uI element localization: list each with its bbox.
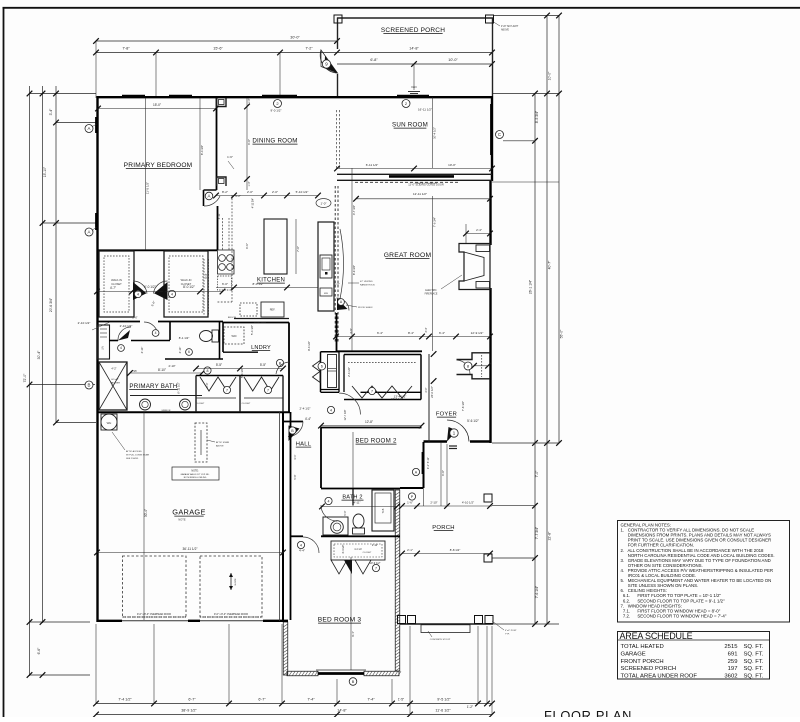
- linen closet 2: [321, 351, 340, 353]
- svg-text:8'-9 3/4": 8'-9 3/4": [352, 265, 356, 275]
- svg-text:22'-8": 22'-8": [548, 531, 552, 540]
- svg-text:4: 4: [155, 331, 157, 335]
- svg-text:B: B: [88, 383, 91, 388]
- svg-text:4: 4: [120, 346, 122, 350]
- left dims: [29, 86, 31, 676]
- svg-text:WALK-IN: WALK-IN: [111, 278, 122, 282]
- svg-text:C: C: [498, 132, 501, 137]
- laundry: [222, 322, 224, 352]
- bed3 hatched walls: [395, 490, 400, 671]
- svg-text:6'-0 1/2": 6'-0 1/2": [144, 285, 156, 289]
- svg-text:7'-4 1/2": 7'-4 1/2": [118, 698, 132, 702]
- hall closets: [196, 375, 283, 377]
- svg-text:16'-11 1/2": 16'-11 1/2": [418, 108, 432, 112]
- svg-text:9'-4": 9'-4": [204, 273, 208, 278]
- svg-text:8'-8 1/2": 8'-8 1/2": [450, 548, 461, 552]
- svg-text:CLOSET: CLOSET: [363, 552, 372, 554]
- svg-text:5'-10 1/2": 5'-10 1/2": [296, 190, 309, 194]
- svg-text:2'-10 1/2": 2'-10 1/2": [120, 324, 133, 328]
- svg-text:5'-5": 5'-5": [216, 363, 222, 367]
- svg-text:42" VENTED: 42" VENTED: [360, 281, 373, 283]
- svg-text:30'-0": 30'-0": [290, 36, 300, 40]
- svg-text:4: 4: [137, 292, 139, 296]
- svg-text:24'-0 1/2": 24'-0 1/2": [430, 386, 434, 398]
- svg-text:ABOVE: ABOVE: [216, 445, 224, 448]
- svg-text:7'-8 1/2": 7'-8 1/2": [461, 401, 465, 411]
- svg-text:4'-9": 4'-9": [349, 328, 353, 334]
- svg-text:SCREENED PORCH: SCREENED PORCH: [381, 27, 445, 34]
- great room south wall: [336, 350, 422, 352]
- svg-text:6'-8": 6'-8": [370, 58, 378, 62]
- svg-text:3602: 3602: [724, 673, 737, 679]
- svg-text:8'-1 1/2": 8'-1 1/2": [179, 336, 190, 340]
- svg-text:7: 7: [375, 566, 377, 570]
- svg-text:BOTH SIDES & CEILING: BOTH SIDES & CEILING: [184, 477, 207, 479]
- bath 2: [321, 488, 400, 490]
- svg-text:2'-10 1/2": 2'-10 1/2": [78, 321, 91, 325]
- svg-text:7'-6 3/4": 7'-6 3/4": [433, 217, 437, 227]
- svg-text:SCREENED PORCH: SCREENED PORCH: [621, 666, 677, 672]
- svg-text:4'-10": 4'-10": [178, 347, 182, 354]
- svg-text:7: 7: [371, 389, 373, 393]
- svg-text:2'-4 1/2": 2'-4 1/2": [300, 407, 311, 411]
- svg-text:38'-9 1/2": 38'-9 1/2": [181, 709, 197, 713]
- svg-text:10'-0": 10'-0": [448, 58, 458, 62]
- svg-text:20'-6 3/4": 20'-6 3/4": [49, 297, 53, 312]
- area schedule: [618, 632, 770, 680]
- svg-text:DINING ROOM: DINING ROOM: [252, 138, 297, 145]
- garage south wall: [97, 620, 122, 622]
- svg-text:2'-4 1/2": 2'-4 1/2": [347, 367, 351, 377]
- svg-text:4'-11": 4'-11": [217, 213, 221, 219]
- svg-text:4'-10 1/2": 4'-10 1/2": [462, 501, 474, 505]
- svg-text:7.2. SECOND FLOOR TO WIND: 7.2. SECOND FLOOR TO WINDOW HEAD = 7'-4": [621, 613, 727, 618]
- svg-text:1'-0": 1'-0": [248, 181, 251, 186]
- svg-text:11'-6 1/2": 11'-6 1/2": [435, 709, 451, 713]
- svg-text:SLOPE: SLOPE: [235, 578, 237, 586]
- svg-text:WALK-IN: WALK-IN: [181, 278, 192, 282]
- svg-text:4'-4 1/2": 4'-4 1/2": [342, 544, 345, 553]
- svg-text:6: 6: [188, 350, 190, 354]
- svg-text:SQ. FT.: SQ. FT.: [744, 659, 764, 665]
- svg-text:SQ. FT.: SQ. FT.: [744, 666, 764, 672]
- border frame: [3, 7, 5, 717]
- svg-text:15'-6": 15'-6": [213, 47, 223, 51]
- svg-text:4'-10": 4'-10": [140, 347, 144, 354]
- svg-text:12'-9 1/2": 12'-9 1/2": [471, 331, 484, 335]
- svg-text:1'-5": 1'-5": [398, 698, 404, 702]
- svg-text:BED ROOM 2: BED ROOM 2: [355, 438, 397, 445]
- svg-text:4"x4" POST: 4"x4" POST: [505, 630, 517, 632]
- svg-text:4'-4": 4'-4": [299, 549, 305, 553]
- svg-text:197: 197: [728, 666, 738, 672]
- svg-text:4: 4: [328, 499, 330, 503]
- svg-text:5'-9": 5'-9": [293, 474, 297, 479]
- svg-text:9'-0": 9'-0": [247, 139, 251, 145]
- svg-text:7'-0": 7'-0": [535, 470, 539, 478]
- svg-text:7'-8": 7'-8": [122, 47, 130, 51]
- svg-text:SEE 2/ A201: SEE 2/ A201: [126, 457, 139, 460]
- svg-text:GREAT ROOM: GREAT ROOM: [384, 252, 432, 259]
- exterior walls: [96, 96, 98, 622]
- svg-text:4'-2": 4'-2": [111, 367, 116, 371]
- svg-text:4: 4: [300, 543, 302, 547]
- svg-text:3'-4": 3'-4": [425, 327, 428, 332]
- main hall wall: [97, 411, 290, 413]
- svg-text:TOTAL HEATED: TOTAL HEATED: [621, 644, 664, 650]
- svg-text:7'-0": 7'-0": [296, 246, 300, 252]
- svg-text:10'-9 1/2": 10'-9 1/2": [370, 561, 381, 565]
- svg-text:8'-2": 8'-2": [222, 190, 228, 194]
- svg-text:6'-0": 6'-0": [222, 282, 228, 286]
- svg-text:PRIMARY BEDROOM: PRIMARY BEDROOM: [124, 162, 193, 169]
- svg-text:14'-8": 14'-8": [337, 709, 347, 713]
- svg-text:A: A: [88, 230, 91, 235]
- svg-text:FRONT PORCH: FRONT PORCH: [621, 659, 664, 665]
- svg-text:SQ. FT.: SQ. FT.: [744, 652, 764, 658]
- svg-text:12'-11 1/2": 12'-11 1/2": [413, 192, 427, 196]
- svg-text:9'-9": 9'-9": [245, 243, 249, 249]
- svg-text:8'-0 1/2": 8'-0 1/2": [253, 282, 264, 286]
- bottom dims: [96, 703, 492, 705]
- svg-text:2'-0": 2'-0": [272, 190, 278, 194]
- svg-text:CONCRETE STOOP: CONCRETE STOOP: [430, 639, 451, 641]
- svg-text:12'-8": 12'-8": [365, 420, 373, 424]
- svg-text:FLOOR PLAN: FLOOR PLAN: [544, 708, 632, 717]
- svg-text:B: B: [352, 680, 355, 684]
- svg-text:8'-4": 8'-4": [408, 331, 414, 335]
- svg-text:NOTE:: NOTE:: [191, 470, 199, 473]
- svg-text:HALL: HALL: [296, 442, 312, 448]
- svg-text:9'-0" x 8'-0" OVERHEAD DOOR: 9'-0" x 8'-0" OVERHEAD DOOR: [137, 613, 171, 616]
- foyer: [428, 354, 430, 442]
- svg-text:2515: 2515: [724, 644, 738, 650]
- svg-text:6'-4": 6'-4": [439, 331, 445, 335]
- svg-text:4'-7": 4'-7": [110, 286, 116, 290]
- svg-text:AREA SCHEDULE: AREA SCHEDULE: [620, 631, 693, 641]
- svg-text:W/D: W/D: [231, 334, 236, 338]
- svg-text:TOTAL AREA UNDER ROOF: TOTAL AREA UNDER ROOF: [621, 673, 698, 679]
- svg-text:12'-7 1/8": 12'-7 1/8": [343, 409, 347, 420]
- svg-text:CLOSET: CLOSET: [242, 403, 251, 405]
- svg-text:5'-5": 5'-5": [260, 363, 266, 367]
- svg-text:2'-0": 2'-0": [425, 387, 428, 392]
- svg-text:6'-7": 6'-7": [258, 698, 266, 702]
- svg-text:7'-4": 7'-4": [307, 698, 315, 702]
- svg-text:4: 4: [171, 292, 173, 296]
- svg-text:FAN: FAN: [411, 85, 416, 89]
- svg-text:2'-1": 2'-1": [407, 548, 413, 552]
- svg-text:1'-0": 1'-0": [334, 282, 340, 286]
- svg-text:8'-0 1/2": 8'-0 1/2": [183, 285, 195, 289]
- svg-text:4'-4": 4'-4": [305, 417, 311, 421]
- svg-text:8'-5 3/4": 8'-5 3/4": [535, 110, 539, 123]
- svg-text:6'-11 1/2": 6'-11 1/2": [366, 163, 378, 167]
- svg-text:SQ. FT.: SQ. FT.: [744, 644, 764, 650]
- svg-text:SOLID SURF: SOLID SURF: [254, 322, 267, 324]
- walk-in closets: [99, 251, 134, 317]
- svg-text:4'-11 3/4": 4'-11 3/4": [252, 198, 255, 208]
- svg-text:LINE OF CLG ABOVE: LINE OF CLG ABOVE: [415, 182, 437, 185]
- svg-text:6'-4": 6'-4": [377, 331, 383, 335]
- svg-text:14'-8": 14'-8": [409, 47, 419, 51]
- bath vestibule: [109, 340, 118, 342]
- svg-text:60"x42": 60"x42": [111, 379, 119, 381]
- water closet: [169, 322, 171, 340]
- svg-text:REF.: REF.: [270, 308, 276, 312]
- svg-text:SUN ROOM: SUN ROOM: [392, 122, 428, 129]
- svg-text:W/ PULL DOWN STAIR: W/ PULL DOWN STAIR: [126, 454, 150, 457]
- svg-text:9'-2": 9'-2": [235, 194, 241, 198]
- svg-text:A: A: [88, 126, 91, 131]
- svg-text:10'-9 1/2": 10'-9 1/2": [391, 397, 403, 401]
- svg-text:GARAGE WALLS 1/2" GYP. BD.: GARAGE WALLS 1/2" GYP. BD.: [181, 473, 210, 476]
- svg-text:9'-0": 9'-0": [441, 470, 445, 476]
- svg-text:2'-10": 2'-10": [168, 364, 175, 368]
- svg-text:2'-6": 2'-6": [132, 316, 137, 320]
- svg-text:7'-7 3/4": 7'-7 3/4": [535, 526, 539, 539]
- svg-text:PORCH: PORCH: [432, 525, 455, 531]
- great room right wall and fireplace: [489, 181, 491, 245]
- svg-text:8: 8: [207, 369, 209, 373]
- svg-text:WOOD SHELF: WOOD SHELF: [358, 307, 373, 309]
- svg-text:36'-11 1/2": 36'-11 1/2": [183, 547, 198, 551]
- linen closet: [98, 325, 110, 359]
- svg-text:3'-1" 5'-11": 3'-1" 5'-11": [426, 457, 430, 469]
- svg-text:CLOSET: CLOSET: [196, 403, 205, 405]
- svg-text:BED ROOM 3: BED ROOM 3: [318, 617, 362, 624]
- svg-text:4: 4: [330, 408, 332, 412]
- svg-text:4'-11": 4'-11": [354, 501, 361, 505]
- svg-text:GARAGE: GARAGE: [621, 652, 646, 658]
- screened porch: [337, 18, 339, 50]
- svg-text:A: A: [208, 194, 211, 199]
- svg-text:15'-10": 15'-10": [43, 166, 47, 177]
- svg-text:2'-10": 2'-10": [430, 501, 437, 505]
- svg-text:2'-0": 2'-0": [247, 190, 253, 194]
- svg-text:8'-10": 8'-10": [158, 368, 166, 372]
- svg-text:ATTIC ACCESS: ATTIC ACCESS: [126, 450, 142, 453]
- svg-text:1'-0": 1'-0": [321, 202, 327, 206]
- svg-text:1'-6": 1'-6": [227, 155, 233, 159]
- svg-text:PRIMARY BATH: PRIMARY BATH: [129, 383, 177, 390]
- svg-text:7: 7: [267, 388, 269, 392]
- svg-text:1'-6": 1'-6": [407, 501, 413, 505]
- svg-text:GARAGE: GARAGE: [172, 508, 205, 517]
- svg-text:5'-0": 5'-0": [343, 510, 347, 515]
- svg-text:1'-0": 1'-0": [248, 98, 251, 103]
- svg-text:40'-7": 40'-7": [548, 260, 552, 269]
- svg-text:2'-11": 2'-11": [372, 544, 378, 547]
- svg-text:26'-1 1/4": 26'-1 1/4": [529, 279, 533, 294]
- svg-text:SQ. FT.: SQ. FT.: [744, 673, 764, 679]
- svg-text:6'-11 1/2": 6'-11 1/2": [177, 382, 181, 394]
- svg-text:9'-0 1/2": 9'-0 1/2": [271, 109, 282, 113]
- svg-text:4"x8" SKYLIGHT: 4"x8" SKYLIGHT: [501, 26, 519, 28]
- svg-text:ATTIC STAIR: ATTIC STAIR: [216, 441, 229, 444]
- svg-text:9'-1": 9'-1": [351, 631, 355, 637]
- svg-text:7'-2": 7'-2": [305, 47, 313, 51]
- svg-text:SHOWER: SHOWER: [110, 383, 120, 385]
- sun room top wall: [337, 96, 492, 98]
- svg-text:ELECTRIC: ELECTRIC: [425, 290, 437, 292]
- svg-text:4-4 1/2: 4-4 1/2: [354, 548, 362, 551]
- svg-text:LNDRY: LNDRY: [251, 345, 271, 351]
- svg-text:3'-4": 3'-4": [49, 108, 53, 116]
- sun room: [491, 96, 493, 181]
- svg-text:1'-2": 1'-2": [467, 705, 473, 709]
- svg-text:8'-4 3/4": 8'-4 3/4": [200, 145, 204, 155]
- svg-text:2'-0": 2'-0": [205, 382, 209, 387]
- svg-text:NOTE: NOTE: [178, 518, 185, 522]
- svg-text:3'-1": 3'-1": [293, 454, 297, 459]
- bed2 closet: [344, 354, 421, 356]
- svg-text:9'-5 1/2": 9'-5 1/2": [437, 698, 451, 702]
- svg-text:7'-4": 7'-4": [367, 698, 375, 702]
- svg-text:ABOVE: ABOVE: [501, 29, 509, 32]
- svg-text:TUB: TUB: [382, 508, 385, 513]
- general plan notes: [618, 521, 790, 623]
- svg-text:4'-7 3/4": 4'-7 3/4": [352, 205, 356, 215]
- top dims: [96, 40, 337, 42]
- svg-text:LIN: LIN: [102, 346, 105, 350]
- svg-text:11'-5 1/2": 11'-5 1/2": [146, 182, 150, 194]
- svg-text:6'-6": 6'-6": [37, 647, 41, 655]
- svg-text:TYP.: TYP.: [505, 634, 510, 636]
- svg-text:10'-0": 10'-0": [448, 163, 456, 167]
- svg-text:6'-7": 6'-7": [188, 698, 196, 702]
- front wall: [424, 440, 448, 442]
- bed room 3: [303, 537, 319, 553]
- svg-text:691: 691: [728, 652, 738, 658]
- svg-text:5'-6 1/2": 5'-6 1/2": [467, 419, 479, 423]
- svg-text:10'-0": 10'-0": [548, 71, 552, 80]
- svg-text:10'-4 1/2": 10'-4 1/2": [433, 127, 437, 139]
- svg-text:9'-4 1/2": 9'-4 1/2": [307, 341, 311, 351]
- svg-text:30'-4": 30'-4": [144, 509, 148, 517]
- svg-text:WH: WH: [107, 421, 112, 425]
- svg-text:5'-4 1/2": 5'-4 1/2": [250, 325, 254, 335]
- svg-text:6: 6: [321, 365, 323, 369]
- svg-text:259: 259: [728, 659, 738, 665]
- svg-text:7'-6 1/4": 7'-6 1/4": [535, 585, 539, 598]
- garage walls: [282, 412, 284, 621]
- svg-text:55'-0": 55'-0": [560, 329, 564, 338]
- svg-text:30'-4": 30'-4": [37, 350, 41, 359]
- svg-text:15'-0": 15'-0": [153, 103, 161, 107]
- interior walls: [216, 98, 218, 190]
- svg-text:9'-0" x 8'-0" OVERHEAD DOOR: 9'-0" x 8'-0" OVERHEAD DOOR: [214, 613, 248, 616]
- svg-text:7: 7: [226, 388, 228, 392]
- svg-text:FOYER: FOYER: [436, 412, 457, 418]
- svg-text:4'-5": 4'-5": [335, 328, 339, 334]
- svg-text:72'-0": 72'-0": [23, 373, 27, 382]
- primary bath: [99, 362, 127, 410]
- kitchen wall ovens/fridge: [318, 222, 334, 311]
- svg-text:2'-4": 2'-4": [476, 228, 482, 232]
- svg-text:RANGE HOOD: RANGE HOOD: [360, 284, 375, 287]
- svg-text:FIREPLACE: FIREPLACE: [425, 293, 438, 296]
